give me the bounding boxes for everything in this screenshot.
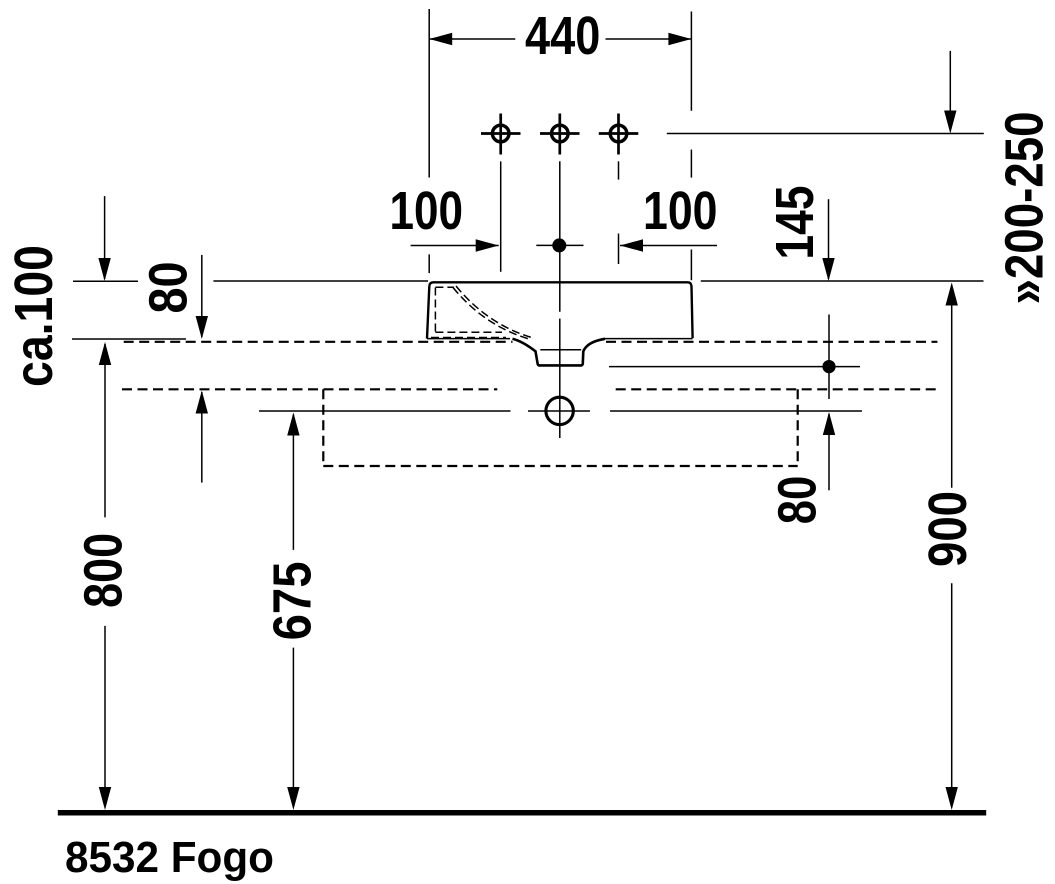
drain boss left curve	[513, 339, 540, 366]
svg-text:80: 80	[139, 262, 199, 314]
center dot tick	[536, 244, 583, 246]
dashed line B right	[616, 388, 937, 390]
faucet hole right crosshair	[617, 114, 620, 155]
basin outline	[427, 282, 693, 338]
dashed rect right edge	[797, 389, 799, 466]
basin inner dashed slope curve 2	[456, 286, 532, 338]
tick top left	[73, 280, 138, 282]
arrowhead 440 right	[668, 33, 691, 45]
basin inner dashed bottom	[435, 331, 502, 333]
675 arrow up	[292, 415, 294, 550]
wall line left	[213, 280, 428, 282]
dashed rect bottom edge	[323, 465, 797, 467]
dashed countertop line A	[124, 341, 513, 343]
faucet hole right circle	[610, 125, 627, 142]
drain circle	[546, 397, 573, 424]
dim line 100 right arrow	[620, 245, 717, 247]
svg-text:100: 100	[390, 181, 464, 241]
faucet hole center circle	[552, 125, 569, 142]
svg-text:ca.100: ca.100	[4, 245, 64, 387]
center dot	[552, 238, 566, 252]
hole extension left	[500, 161, 502, 271]
800 shaft lower + floor arrow	[104, 626, 106, 787]
dashed countertop line A right part	[606, 341, 937, 343]
145 arrow down	[828, 199, 830, 279]
svg-text:900: 900	[918, 491, 978, 567]
right dot	[822, 360, 835, 373]
svg-text:8532 Fogo: 8532 Fogo	[65, 833, 274, 882]
900 arrow up	[951, 285, 953, 488]
basin inner dashed top connector	[435, 286, 454, 288]
arrow down to faucet line	[949, 51, 951, 132]
dashed line B left	[122, 388, 497, 390]
675 shaft lower + floor arrow	[292, 648, 294, 787]
svg-text:»200-250: »200-250	[994, 112, 1054, 305]
arrowhead 440 left	[429, 33, 452, 45]
basin inner dashed slope curve 1	[453, 288, 529, 340]
800 arrow up	[104, 344, 106, 517]
ca.100 arrow down	[104, 196, 106, 279]
hole extension center	[559, 161, 561, 311]
drain level line right	[610, 410, 862, 412]
faucet hole center crosshair	[558, 114, 561, 155]
dim line 440	[429, 38, 515, 40]
water connection line	[609, 366, 860, 368]
faucet hole left circle	[492, 125, 509, 142]
drain boss bottom	[539, 364, 582, 367]
basin inner dashed vertical	[434, 288, 436, 333]
basin bottom edge left	[427, 338, 510, 340]
floor line	[58, 810, 986, 816]
80 left arrow up (lower)	[201, 392, 203, 483]
drain boss right curve	[581, 339, 605, 366]
dim line 100 left arrow	[411, 245, 499, 247]
svg-text:80: 80	[767, 476, 827, 525]
drain level line tick	[528, 410, 590, 412]
svg-text:800: 800	[74, 533, 134, 608]
drain flange line	[540, 349, 581, 351]
basin bottom edge right	[604, 338, 693, 340]
svg-text:100: 100	[643, 181, 718, 241]
faucet reference line right	[667, 133, 984, 135]
900 shaft lower + floor arrow	[951, 583, 953, 787]
dim 440 extension line left	[428, 9, 430, 178]
wall line right	[701, 280, 984, 282]
dim 440 extension line right	[690, 12, 692, 111]
tick lower left	[72, 338, 186, 340]
svg-text:675: 675	[263, 561, 323, 640]
drain level line left	[259, 410, 511, 412]
svg-text:145: 145	[765, 186, 825, 260]
hole extension right	[618, 161, 620, 179]
145 line to dot	[828, 315, 830, 400]
80 right arrow up	[828, 414, 830, 490]
basin inner dashed lower	[431, 337, 506, 339]
faucet hole left crosshair	[499, 114, 502, 155]
80 left arrow down	[201, 255, 203, 337]
dashed rect left edge	[322, 389, 324, 466]
svg-text:440: 440	[525, 6, 600, 66]
